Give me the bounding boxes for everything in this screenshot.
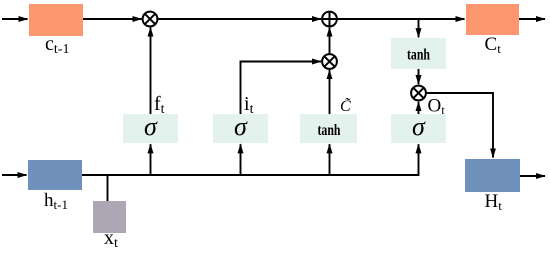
multiply node M2: [322, 54, 337, 69]
wire: drop to x(t): [107, 175, 109, 201]
svg-text:tanh: tanh: [407, 47, 430, 64]
box tanh middle: [300, 114, 357, 143]
svg-text:σ: σ: [412, 112, 426, 141]
box sigma f: [123, 114, 178, 143]
wire: main h line across to sigma O: [82, 144, 419, 175]
svg-text:ft: ft: [154, 93, 165, 117]
wire: tanh right down to multiply M3: [418, 69, 420, 84]
box H(t): [465, 159, 520, 192]
wire: up arrow into sigma i: [240, 144, 242, 175]
svg-text:it: it: [244, 93, 254, 117]
wire: C(t) output: [519, 18, 545, 20]
wire: sigma i up and right to M2: [241, 62, 322, 115]
svg-text:tanh: tanh: [318, 122, 341, 139]
wire: input arrow into h(t-1): [2, 174, 27, 176]
box C(t): [466, 4, 519, 35]
box c(t-1): [29, 4, 83, 36]
wire: up arrow into tanh middle: [329, 144, 331, 175]
wire: M2 up to plus node: [329, 28, 331, 55]
wire: plus node to C(t): [337, 18, 465, 20]
svg-text:σ: σ: [144, 112, 158, 141]
wire: H(t) output: [520, 175, 545, 177]
svg-text:Ht: Ht: [485, 191, 503, 213]
svg-text:C̃: C̃: [340, 97, 351, 115]
wire: input arrow into c(t-1): [2, 18, 28, 20]
svg-text:ht-1: ht-1: [44, 190, 68, 212]
wire: up arrow into sigma f: [150, 144, 152, 175]
wire: sigma O up to M3: [418, 102, 420, 114]
wire: M3 right then down into H(t): [426, 93, 493, 158]
plus node A1: [322, 12, 337, 27]
box sigma i: [213, 114, 268, 143]
multiply node M1: [143, 12, 158, 27]
box h(t-1): [28, 160, 82, 190]
box x(t): [93, 201, 126, 233]
box tanh right: [391, 38, 446, 69]
svg-text:ct-1: ct-1: [45, 33, 69, 57]
wire: sigma f up to M1: [150, 28, 152, 115]
wire: c(t-1) to multiply M1: [83, 18, 142, 20]
multiply node M3: [411, 86, 426, 101]
wire: M1 to plus node: [157, 18, 321, 20]
svg-text:σ: σ: [234, 112, 248, 141]
box sigma O: [391, 114, 446, 143]
svg-text:Ct: Ct: [485, 34, 502, 56]
wire: branch down to tanh (right): [418, 19, 420, 37]
wire: tanh middle up to M2: [329, 70, 331, 114]
